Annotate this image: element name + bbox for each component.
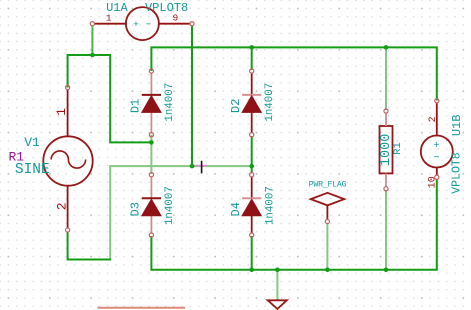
svg-text:−: − xyxy=(146,19,152,30)
diode D1 xyxy=(128,69,175,137)
wire bottom rail D3 bottom to U1B pin10 xyxy=(151,179,436,270)
svg-text:D1: D1 xyxy=(128,99,142,113)
wire D2 top stub xyxy=(251,47,253,70)
power flag PWR_FLAG xyxy=(309,180,347,223)
wire top rail D1 top to U1B pin2 xyxy=(151,47,436,100)
svg-text:D4: D4 xyxy=(229,202,243,216)
diode D3 xyxy=(128,173,175,238)
wire U1A pin1 stub down xyxy=(91,26,93,55)
resistor R1 xyxy=(379,109,404,191)
svg-text:1: 1 xyxy=(54,108,69,116)
wire D1 bottom to D3 top (crossover, no junction) xyxy=(150,135,152,174)
ground xyxy=(268,300,287,309)
svg-text:U1B: U1B xyxy=(450,114,464,136)
junction at U1A pin1 column xyxy=(90,53,95,58)
junction at D1/D3 node A xyxy=(149,140,154,145)
U1A pin 9 xyxy=(159,12,194,26)
svg-text:10: 10 xyxy=(427,176,438,188)
diode D2 xyxy=(229,69,276,137)
wire V1 pin1 up and across to corner (node A) xyxy=(68,55,152,142)
svg-text:−: − xyxy=(433,153,439,164)
junction at U1A pin9 node B xyxy=(190,164,195,169)
wire PWR_FLAG stub xyxy=(326,223,328,269)
wire node B horizontal and up from V1 return column xyxy=(110,166,252,259)
junction bottom rail at ground xyxy=(275,268,280,273)
svg-text:2: 2 xyxy=(54,202,69,210)
V1 pin 2 xyxy=(54,186,69,232)
svg-text:PWR_FLAG: PWR_FLAG xyxy=(309,180,347,189)
V1 pin 1 xyxy=(54,85,69,136)
wire V1 pin2 down and right xyxy=(68,232,112,260)
wire R1 bottom stub xyxy=(385,190,387,269)
cursor crosshair xyxy=(196,161,208,174)
svg-text:V1: V1 xyxy=(24,135,40,150)
diode D4 xyxy=(229,173,276,238)
svg-text:1n4007: 1n4007 xyxy=(164,83,176,122)
sheet edge artifact line xyxy=(98,307,186,309)
svg-text:1n4007: 1n4007 xyxy=(264,186,276,225)
wire U1A pin9 down to node B xyxy=(191,26,193,167)
U1B pin 2 xyxy=(428,99,439,136)
svg-text:SINE: SINE xyxy=(15,162,50,178)
junction top rail at D2 xyxy=(249,45,254,50)
wire D4 bottom stub xyxy=(251,236,253,270)
svg-text:+: + xyxy=(433,141,439,152)
svg-text:D2: D2 xyxy=(229,99,243,113)
op-amp U1A ammeter body xyxy=(126,7,159,40)
U1B pin 10 xyxy=(427,168,439,189)
wire R1 top stub xyxy=(385,48,387,110)
junction bottom rail at PWR_FLAG xyxy=(325,268,330,273)
svg-text:2: 2 xyxy=(428,116,439,122)
junction at D2/D4 node B xyxy=(249,164,254,169)
svg-text:VPLOT8: VPLOT8 xyxy=(145,1,188,15)
svg-text:+: + xyxy=(133,19,139,30)
junction top rail at R1 xyxy=(384,45,389,50)
svg-text:VPLOT8: VPLOT8 xyxy=(450,152,463,194)
junction bottom rail at D4 xyxy=(249,268,254,273)
svg-text:1n4007: 1n4007 xyxy=(164,186,176,225)
svg-text:U1A: U1A xyxy=(106,1,128,15)
voltage source V1 body xyxy=(43,136,92,185)
U1A pin 1 xyxy=(90,12,126,26)
wire D2 bottom to D4 top xyxy=(251,136,253,173)
svg-text:1n4007: 1n4007 xyxy=(264,83,276,122)
wire ground stem xyxy=(276,271,278,300)
junction bottom rail at R1 xyxy=(384,268,389,273)
svg-text:D3: D3 xyxy=(128,202,142,216)
op-amp U1B ammeter body xyxy=(421,136,453,168)
svg-text:R1: R1 xyxy=(392,142,404,155)
